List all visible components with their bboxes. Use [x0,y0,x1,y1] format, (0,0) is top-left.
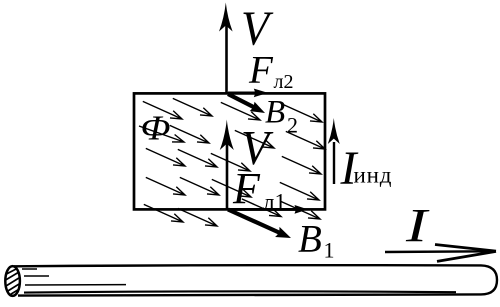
induced current arrow I_ind (up, outside right side) [328,118,340,184]
velocity vector V (middle, from lower side of contour) [220,120,234,210]
flux field arrow row2-2 [170,125,209,143]
svg-text:2: 2 [287,113,298,138]
label B_1 [298,218,335,263]
flux field arrow row5-4 [281,201,320,219]
wire (cylindrical rod) body outline [14,265,497,295]
flux field arrow row1-2 [173,98,212,116]
flux field arrow row5-3 [242,199,281,217]
flux field arrow row2-1 [139,126,184,142]
wire end face (hatched ellipse) [5,266,20,296]
flux field arrow row2-4 [286,131,325,149]
svg-text:Φ: Φ [141,109,171,148]
force vector F_l2 (along top side, rightward) [228,89,268,98]
svg-text:B: B [298,218,322,261]
svg-text:F: F [232,164,261,213]
svg-text:л1: л1 [263,190,286,215]
wire highlight streak 3 [25,284,126,286]
flux field arrow row4-3 [212,179,251,197]
field vector B_2 (thick, down-right from top junction) [228,94,265,113]
wire shading line (long, near bottom) [24,291,456,292]
label B_2 [265,95,298,138]
flux field arrow row3-4 [282,156,321,174]
current direction arrow I (open head, rightward above wire) [385,245,496,262]
wire highlight streak 1 [22,268,37,270]
flux field arrow row2-3 [235,130,274,148]
flux field arrow row4-1 [146,177,185,195]
flux field arrow row3-2 [178,149,217,167]
flux field arrow row3-3 [211,153,250,171]
flux field arrow row1-1 [143,101,182,119]
velocity vector V (top, from upper side of contour) [219,3,233,94]
label F_l2 [248,49,293,94]
flux field arrow row3-1 [146,148,185,166]
field vector B_1 (thick, down-right from bottom junction) [228,210,291,239]
label I_ind [340,142,393,195]
svg-text:V: V [241,1,274,56]
svg-text:1: 1 [324,238,335,263]
flux field arrow row5-2 [178,208,217,226]
flux field arrow row4-4 [280,182,319,200]
rectangular contour frame [134,93,325,209]
wire highlight streak 2 [24,275,49,277]
flux field arrow row1-4 [283,104,322,122]
force vector F_l1 (along bottom side, rightward) [228,205,308,214]
svg-text:F: F [248,49,274,92]
svg-text:л2: л2 [274,71,294,93]
svg-text:I: I [405,200,430,253]
label F_l1 [232,164,286,215]
svg-text:инд: инд [354,163,393,188]
flux field arrow row1-3 [221,102,260,120]
flux field arrow row5-1 [144,204,183,222]
flux field arrow row4-2 [180,177,219,195]
